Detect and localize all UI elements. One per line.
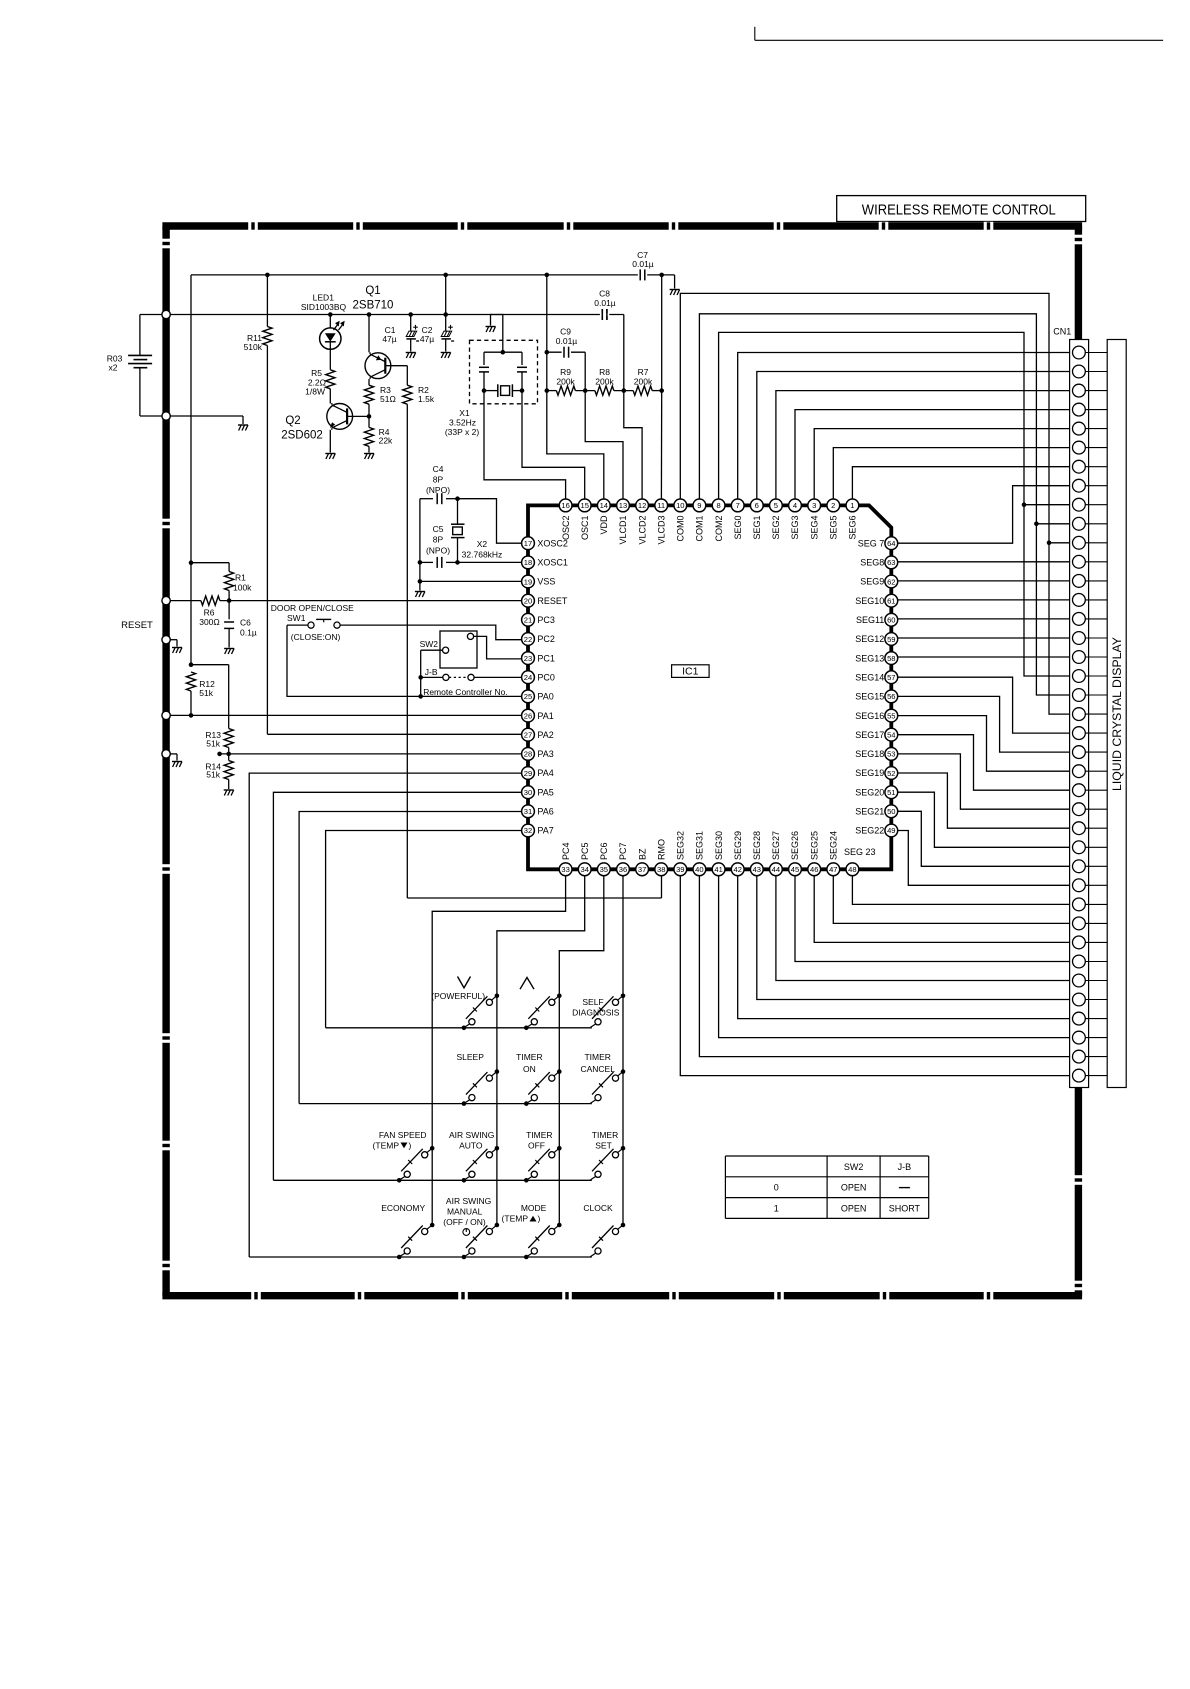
svg-text:24: 24 — [524, 673, 532, 682]
svg-text:TIMER: TIMER — [526, 1130, 552, 1140]
svg-text:SEG22: SEG22 — [855, 826, 884, 836]
svg-text:5: 5 — [774, 501, 778, 510]
svg-text:COM0: COM0 — [676, 516, 686, 542]
svg-text:16: 16 — [561, 501, 569, 510]
svg-text:8P: 8P — [433, 534, 444, 544]
svg-text:1: 1 — [850, 501, 854, 510]
svg-text:PA6: PA6 — [537, 807, 553, 817]
svg-text:ECONOMY: ECONOMY — [381, 1203, 425, 1213]
svg-text:22k: 22k — [379, 436, 393, 446]
svg-text:SEG14: SEG14 — [855, 673, 884, 683]
svg-text:0.1µ: 0.1µ — [240, 627, 257, 637]
svg-text:SLEEP: SLEEP — [456, 1052, 484, 1062]
svg-text:SEG1: SEG1 — [752, 516, 762, 540]
svg-text:34: 34 — [580, 865, 588, 874]
svg-text:40: 40 — [695, 865, 703, 874]
svg-text:62: 62 — [887, 577, 895, 586]
svg-text:DOOR OPEN/CLOSE: DOOR OPEN/CLOSE — [271, 603, 354, 613]
svg-text:R6: R6 — [204, 607, 215, 617]
svg-text:1.5k: 1.5k — [418, 394, 435, 404]
svg-text:SEG10: SEG10 — [855, 596, 884, 606]
svg-text:SEG8: SEG8 — [860, 558, 884, 568]
svg-text:57: 57 — [887, 673, 895, 682]
svg-text:200k: 200k — [556, 377, 575, 387]
svg-text:7: 7 — [736, 501, 740, 510]
svg-text:SET: SET — [595, 1141, 612, 1151]
svg-text:SID1003BQ: SID1003BQ — [301, 302, 347, 312]
svg-text:27: 27 — [524, 731, 532, 740]
svg-text:(TEMP: (TEMP — [373, 1141, 400, 1151]
svg-text:60: 60 — [887, 616, 895, 625]
svg-text:Q1: Q1 — [365, 285, 380, 297]
svg-text:51k: 51k — [206, 770, 220, 780]
svg-text:43: 43 — [753, 865, 761, 874]
svg-text:OSC1: OSC1 — [580, 516, 590, 541]
svg-text:PC5: PC5 — [580, 842, 590, 860]
svg-text:13: 13 — [619, 501, 627, 510]
svg-text:RESET: RESET — [537, 596, 568, 606]
svg-text:21: 21 — [524, 616, 532, 625]
svg-text:AIR SWING: AIR SWING — [446, 1196, 491, 1206]
svg-text:): ) — [409, 1141, 412, 1151]
svg-text:VSS: VSS — [537, 577, 555, 587]
svg-text:SEG12: SEG12 — [855, 634, 884, 644]
svg-text:X1: X1 — [459, 408, 470, 418]
svg-text:38: 38 — [657, 865, 665, 874]
svg-text:25: 25 — [524, 692, 532, 701]
svg-text:PC4: PC4 — [561, 842, 571, 860]
svg-text:OPEN: OPEN — [841, 1183, 867, 1193]
svg-text:CN1: CN1 — [1053, 327, 1071, 337]
svg-text:PA4: PA4 — [537, 768, 553, 778]
svg-text:ON: ON — [523, 1064, 536, 1074]
svg-text:2: 2 — [831, 501, 835, 510]
svg-text:49: 49 — [887, 826, 895, 835]
svg-text:VLCD2: VLCD2 — [637, 516, 647, 545]
svg-text:C6: C6 — [240, 618, 251, 628]
svg-text:SEG26: SEG26 — [790, 831, 800, 860]
svg-text:4: 4 — [793, 501, 797, 510]
svg-text:64: 64 — [887, 539, 895, 548]
svg-text:PA0: PA0 — [537, 692, 553, 702]
svg-text:CANCEL: CANCEL — [580, 1064, 615, 1074]
svg-text:VLCD3: VLCD3 — [656, 516, 666, 545]
svg-text:32.768kHz: 32.768kHz — [462, 550, 503, 560]
svg-text:PA7: PA7 — [537, 826, 553, 836]
svg-text:200k: 200k — [634, 377, 653, 387]
svg-text:RMO: RMO — [656, 839, 666, 860]
svg-text:SEG17: SEG17 — [855, 730, 884, 740]
svg-text:SEG16: SEG16 — [855, 711, 884, 721]
svg-text:(33P x 2): (33P x 2) — [445, 427, 480, 437]
svg-text:100k: 100k — [233, 583, 252, 593]
svg-text:55: 55 — [887, 711, 895, 720]
svg-text:0: 0 — [774, 1183, 779, 1193]
svg-text:300Ω: 300Ω — [199, 617, 220, 627]
svg-text:PC1: PC1 — [537, 653, 555, 663]
svg-text:32: 32 — [524, 826, 532, 835]
svg-text:R1: R1 — [235, 573, 246, 583]
svg-text:33: 33 — [561, 865, 569, 874]
svg-text:TIMER: TIMER — [584, 1052, 610, 1062]
svg-text:(OFF / ON): (OFF / ON) — [443, 1217, 486, 1227]
svg-text:RESET: RESET — [121, 620, 153, 631]
svg-text:8P: 8P — [433, 475, 444, 485]
svg-text:(CLOSE:ON): (CLOSE:ON) — [291, 632, 341, 642]
svg-text:C9: C9 — [560, 326, 571, 336]
svg-text:47: 47 — [829, 865, 837, 874]
svg-text:R7: R7 — [638, 367, 649, 377]
svg-text:FAN SPEED: FAN SPEED — [379, 1130, 427, 1140]
svg-text:(NPO): (NPO) — [426, 545, 450, 555]
svg-text:SEG25: SEG25 — [809, 831, 819, 860]
svg-text:SEG32: SEG32 — [676, 831, 686, 860]
svg-text:31: 31 — [524, 807, 532, 816]
svg-text:3.52Hz: 3.52Hz — [449, 418, 476, 428]
svg-text:12: 12 — [638, 501, 646, 510]
svg-text:SEG27: SEG27 — [771, 831, 781, 860]
svg-text:SEG2: SEG2 — [771, 516, 781, 540]
svg-text:SEG11: SEG11 — [856, 615, 884, 625]
svg-text:1: 1 — [774, 1204, 779, 1214]
svg-text:SEG5: SEG5 — [829, 516, 839, 540]
svg-text:58: 58 — [887, 654, 895, 663]
svg-text:OFF: OFF — [528, 1141, 545, 1151]
svg-text:2SD602: 2SD602 — [281, 429, 323, 441]
svg-text:22: 22 — [524, 635, 532, 644]
svg-text:SEG29: SEG29 — [733, 831, 743, 860]
svg-text:XOSC2: XOSC2 — [537, 538, 568, 548]
svg-text:SEG20: SEG20 — [855, 787, 884, 797]
svg-text:CLOCK: CLOCK — [583, 1203, 613, 1213]
svg-text:(TEMP: (TEMP — [502, 1214, 529, 1224]
svg-text:SW2: SW2 — [844, 1162, 864, 1172]
svg-text:41: 41 — [714, 865, 722, 874]
svg-text:0.01µ: 0.01µ — [594, 298, 616, 308]
svg-text:51: 51 — [887, 788, 895, 797]
svg-text:SHORT: SHORT — [889, 1204, 921, 1214]
svg-text:SEG18: SEG18 — [855, 749, 884, 759]
svg-text:PA3: PA3 — [537, 749, 553, 759]
svg-text:(POWERFUL): (POWERFUL) — [431, 991, 485, 1001]
svg-text:PC3: PC3 — [537, 615, 555, 625]
svg-text:53: 53 — [887, 750, 895, 759]
svg-text:MANUAL: MANUAL — [447, 1206, 483, 1216]
svg-text:PA1: PA1 — [537, 711, 553, 721]
svg-text:SEG 23: SEG 23 — [844, 847, 876, 857]
svg-text:35: 35 — [600, 865, 608, 874]
svg-text:19: 19 — [524, 577, 532, 586]
svg-text:DIAGNOSIS: DIAGNOSIS — [572, 1007, 620, 1017]
svg-text:45: 45 — [791, 865, 799, 874]
svg-text:AIR SWING: AIR SWING — [449, 1130, 494, 1140]
svg-text:C4: C4 — [433, 464, 444, 474]
svg-text:42: 42 — [733, 865, 741, 874]
svg-text:17: 17 — [524, 539, 532, 548]
svg-text:SEG15: SEG15 — [855, 692, 884, 702]
svg-text:SEG21: SEG21 — [855, 807, 884, 817]
svg-text:Q2: Q2 — [285, 415, 300, 427]
svg-text:SEG3: SEG3 — [790, 516, 800, 540]
svg-text:PA5: PA5 — [537, 787, 553, 797]
svg-text:20: 20 — [524, 597, 532, 606]
svg-text:37: 37 — [638, 865, 646, 874]
svg-text:SEG31: SEG31 — [695, 831, 705, 860]
svg-text:J-B: J-B — [898, 1162, 912, 1172]
svg-text:39: 39 — [676, 865, 684, 874]
svg-text:SEG28: SEG28 — [752, 831, 762, 860]
svg-text:44: 44 — [772, 865, 780, 874]
svg-text:OSC2: OSC2 — [561, 516, 571, 541]
svg-text:SEG30: SEG30 — [714, 831, 724, 860]
svg-text:BZ: BZ — [637, 848, 647, 860]
svg-text:SEG 7: SEG 7 — [858, 538, 885, 548]
svg-text:VLCD1: VLCD1 — [618, 516, 628, 545]
svg-text:48: 48 — [848, 865, 856, 874]
svg-text:9: 9 — [697, 501, 701, 510]
svg-text:54: 54 — [887, 731, 895, 740]
svg-text:51Ω: 51Ω — [380, 394, 396, 404]
svg-text:51k: 51k — [206, 739, 220, 749]
svg-text:SELF: SELF — [582, 997, 603, 1007]
svg-text:WIRELESS REMOTE CONTROL: WIRELESS REMOTE CONTROL — [862, 203, 1056, 219]
svg-text:8: 8 — [716, 501, 720, 510]
svg-text:SEG0: SEG0 — [733, 516, 743, 540]
svg-text:SEG4: SEG4 — [809, 516, 819, 540]
svg-text:XOSC1: XOSC1 — [537, 558, 568, 568]
svg-text:LED1: LED1 — [313, 293, 335, 303]
svg-text:47µ: 47µ — [382, 334, 396, 344]
svg-text:56: 56 — [887, 692, 895, 701]
svg-text:AUTO: AUTO — [459, 1141, 483, 1151]
svg-text:MODE: MODE — [521, 1203, 547, 1213]
svg-text:COM1: COM1 — [695, 516, 705, 542]
svg-text:PC6: PC6 — [599, 842, 609, 860]
svg-text:PC2: PC2 — [537, 634, 555, 644]
svg-text:PA2: PA2 — [537, 730, 553, 740]
svg-text:Remote Controller No.: Remote Controller No. — [423, 687, 508, 697]
svg-text:15: 15 — [580, 501, 588, 510]
svg-text:R9: R9 — [560, 367, 571, 377]
svg-text:OPEN: OPEN — [841, 1204, 867, 1214]
svg-text:52: 52 — [887, 769, 895, 778]
svg-text:30: 30 — [524, 788, 532, 797]
svg-text:J-B: J-B — [425, 667, 438, 677]
svg-text:(NPO): (NPO) — [426, 485, 450, 495]
svg-text:28: 28 — [524, 750, 532, 759]
svg-text:SW1: SW1 — [287, 613, 306, 623]
svg-text:SEG6: SEG6 — [848, 516, 858, 540]
svg-text:18: 18 — [524, 558, 532, 567]
svg-text:59: 59 — [887, 635, 895, 644]
svg-text:6: 6 — [755, 501, 759, 510]
svg-text:11: 11 — [657, 501, 665, 510]
svg-text:LIQUID CRYSTAL DISPLAY: LIQUID CRYSTAL DISPLAY — [1110, 637, 1124, 791]
svg-text:SEG13: SEG13 — [855, 653, 884, 663]
svg-text:36: 36 — [619, 865, 627, 874]
svg-text:PC0: PC0 — [537, 673, 555, 683]
svg-text:SEG9: SEG9 — [860, 577, 884, 587]
svg-text:47µ: 47µ — [420, 334, 434, 344]
svg-text:PC7: PC7 — [618, 842, 628, 860]
svg-text:x2: x2 — [109, 363, 118, 373]
svg-text:29: 29 — [524, 769, 532, 778]
svg-text:50: 50 — [887, 807, 895, 816]
svg-text:TIMER: TIMER — [516, 1052, 542, 1062]
svg-text:10: 10 — [676, 501, 684, 510]
svg-text:26: 26 — [524, 711, 532, 720]
svg-text:COM2: COM2 — [714, 516, 724, 542]
svg-text:23: 23 — [524, 654, 532, 663]
svg-text:TIMER: TIMER — [592, 1130, 618, 1140]
svg-text:46: 46 — [810, 865, 818, 874]
svg-text:1/8W: 1/8W — [305, 387, 325, 397]
svg-text:61: 61 — [887, 597, 895, 606]
svg-text:SW2: SW2 — [420, 639, 439, 649]
svg-text:2SB710: 2SB710 — [353, 300, 394, 312]
svg-text:63: 63 — [887, 558, 895, 567]
svg-text:VDD: VDD — [599, 515, 609, 535]
svg-text:SEG19: SEG19 — [855, 768, 884, 778]
svg-text:510k: 510k — [244, 342, 263, 352]
svg-text:SEG24: SEG24 — [829, 831, 839, 860]
svg-text:R8: R8 — [599, 367, 610, 377]
svg-text:200k: 200k — [595, 377, 614, 387]
svg-text:C5: C5 — [433, 524, 444, 534]
svg-text:3: 3 — [812, 501, 816, 510]
svg-text:): ) — [538, 1214, 541, 1224]
svg-text:IC1: IC1 — [682, 666, 699, 678]
svg-text:51k: 51k — [199, 688, 213, 698]
svg-text:X2: X2 — [477, 539, 488, 549]
svg-text:0.01µ: 0.01µ — [632, 259, 654, 269]
svg-text:14: 14 — [600, 501, 608, 510]
svg-text:0.01µ: 0.01µ — [556, 336, 578, 346]
